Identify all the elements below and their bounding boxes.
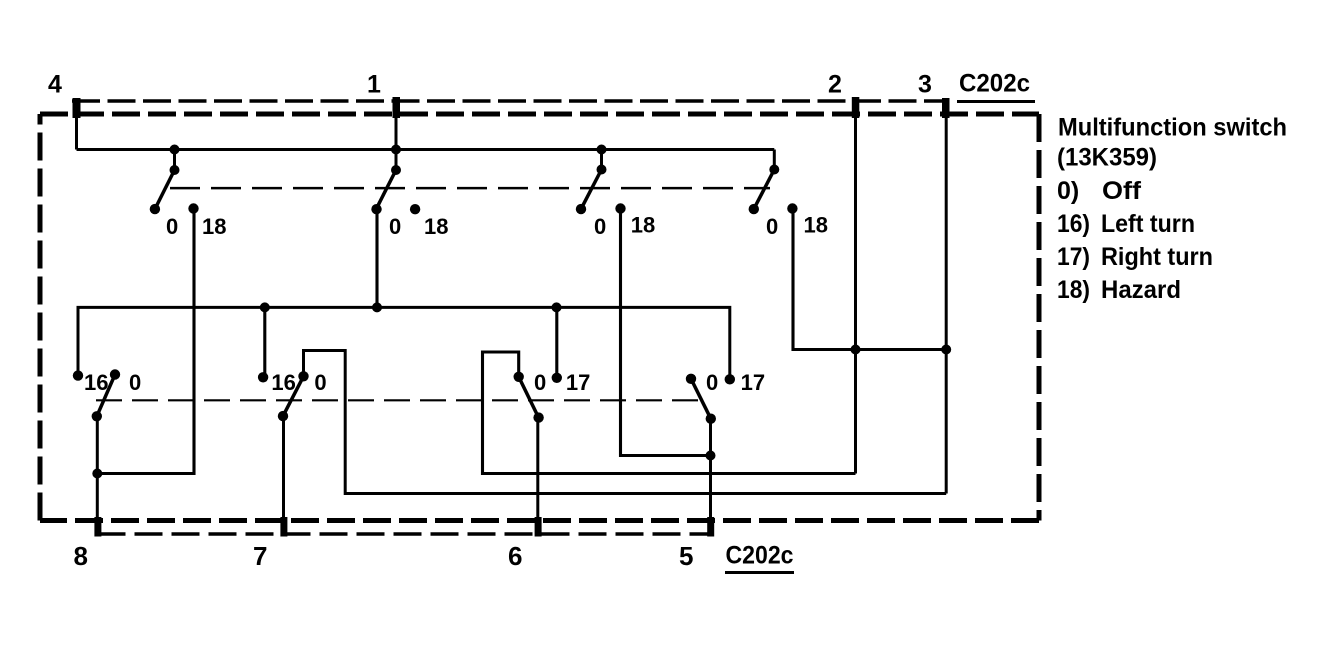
wire: mid bus: [78, 307, 730, 379]
wire: 17 feed to switch B3: [555, 307, 558, 377]
svg-text:0): 0): [1057, 177, 1079, 205]
mechanical linkage dashed line (top row): [170, 187, 770, 190]
legend text block: [1057, 114, 1287, 305]
svg-text:Multifunction switch: Multifunction switch: [1058, 114, 1287, 142]
pin 4: [48, 71, 81, 150]
node: bus junction to switch B2 16: [260, 302, 270, 312]
svg-text:18: 18: [804, 213, 828, 238]
pin 1: [367, 71, 400, 171]
label C202c (bottom): [725, 542, 794, 573]
svg-text:17: 17: [741, 370, 765, 395]
svg-text:18: 18: [631, 213, 655, 238]
switch S4 (hazard, 0/18): [749, 150, 828, 240]
wire: 16 feed to switch B2: [263, 307, 266, 377]
svg-text:Off: Off: [1102, 177, 1142, 205]
svg-text:3: 3: [918, 71, 932, 99]
wire: pin 7 lead: [282, 416, 285, 536]
node: junction with pin 3: [941, 345, 951, 355]
svg-text:17): 17): [1057, 243, 1090, 271]
wire: pin 6 lead: [536, 418, 539, 537]
node: junction pin8 / S1-18: [92, 469, 102, 479]
switch S2 (hazard, 0/18) on pin 1: [371, 145, 448, 240]
svg-text:Right turn: Right turn: [1101, 243, 1213, 271]
svg-text:7: 7: [253, 541, 267, 571]
svg-text:C202c: C202c: [726, 542, 794, 570]
svg-text:0: 0: [166, 214, 178, 239]
label C202c (top): [957, 70, 1035, 102]
wire: S1 contact 18 down and left to pin8 node: [97, 209, 194, 474]
svg-text:18: 18: [424, 214, 448, 239]
switch S1 (hazard, 0/18): [150, 145, 227, 240]
mechanical linkage dashed line (bottom row): [96, 399, 700, 401]
svg-text:0: 0: [706, 370, 718, 395]
svg-text:16): 16): [1057, 210, 1090, 238]
svg-text:1: 1: [367, 71, 381, 99]
pin 5 stub and label: [679, 517, 714, 571]
svg-text:0: 0: [594, 214, 606, 239]
pin 3: [918, 71, 950, 494]
connector C202c bottom dashed line: [98, 532, 712, 535]
switch B2 (left turn, 16/0) on pin 7: [258, 370, 327, 421]
wire: S2 contact 0 down to mid bus: [375, 209, 378, 307]
svg-text:5: 5: [679, 541, 693, 571]
wire: B3 contact 0 staple to pin 2 line: [483, 352, 856, 474]
svg-text:0: 0: [389, 214, 401, 239]
svg-text:4: 4: [48, 71, 62, 99]
svg-text:16: 16: [84, 370, 108, 395]
wire: pin 5 lead: [709, 419, 712, 537]
svg-text:6: 6: [508, 541, 522, 571]
wire: S4 contact 18 down then right to pin 3: [793, 209, 946, 350]
pin 6 stub and label: [508, 517, 542, 571]
switch S3 (hazard, 0/18): [576, 145, 655, 240]
svg-text:16: 16: [271, 370, 295, 395]
svg-text:Left turn: Left turn: [1101, 210, 1195, 238]
node: bus junction to switch B3 17: [552, 302, 562, 312]
multifunction switch boundary (dashed box): [40, 114, 1039, 521]
connector C202c top dashed line: [72, 99, 948, 102]
node: bus junction from S2 0: [372, 302, 382, 312]
node: junction with pin 2: [851, 345, 861, 355]
wire: pin 8 lead: [96, 416, 99, 536]
pin 7 stub and label: [253, 517, 287, 571]
node: junction on pin5 line: [706, 451, 716, 461]
wire: S3 contact 18 down then right to pin5 branch: [621, 209, 711, 456]
wire: B2 contact 0 staple to pin 3 line: [304, 351, 947, 494]
wire: top bus from pin 4: [77, 148, 775, 151]
svg-text:18): 18): [1057, 276, 1090, 304]
svg-text:2: 2: [828, 71, 842, 99]
svg-text:C202c: C202c: [959, 70, 1030, 98]
svg-text:0: 0: [129, 370, 141, 395]
svg-text:17: 17: [566, 370, 590, 395]
switch B1 (left turn, 16/0) on pin 8: [73, 369, 141, 421]
switch B3 (right turn, 0/17) on pin 6: [514, 370, 591, 423]
svg-text:0: 0: [534, 370, 546, 395]
svg-text:18: 18: [202, 214, 226, 239]
pin 8 stub and label: [74, 517, 102, 571]
svg-text:0: 0: [766, 214, 778, 239]
pin 2: [828, 71, 859, 474]
svg-text:Hazard: Hazard: [1101, 276, 1181, 304]
switch B4 (right turn, 0/17) on pin 5: [686, 370, 765, 424]
svg-text:0: 0: [314, 370, 326, 395]
svg-text:8: 8: [74, 541, 88, 571]
svg-text:(13K359): (13K359): [1057, 144, 1157, 172]
